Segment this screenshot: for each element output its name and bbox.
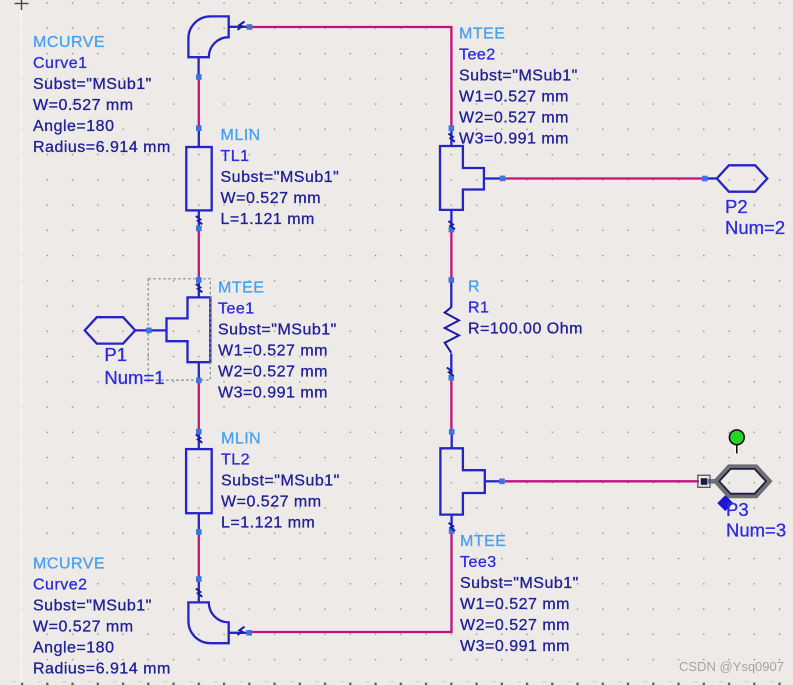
svg-text:W2=0.527 mm: W2=0.527 mm	[460, 617, 570, 634]
svg-text:MLIN: MLIN	[221, 127, 261, 144]
svg-text:Num=1: Num=1	[104, 367, 164, 388]
svg-text:R: R	[468, 279, 480, 296]
svg-text:Angle=180: Angle=180	[33, 640, 114, 657]
svg-text:W3=0.991 mm: W3=0.991 mm	[460, 638, 570, 655]
svg-text:TL1: TL1	[221, 148, 250, 165]
svg-text:MTEE: MTEE	[459, 26, 505, 43]
svg-text:L=1.121 mm: L=1.121 mm	[221, 211, 315, 228]
svg-text:Subst="MSub1": Subst="MSub1"	[459, 68, 578, 85]
svg-text:Subst="MSub1": Subst="MSub1"	[221, 169, 340, 186]
svg-text:Tee1: Tee1	[218, 301, 255, 318]
svg-text:Subst="MSub1": Subst="MSub1"	[221, 473, 340, 490]
svg-text:Tee3: Tee3	[460, 554, 497, 571]
svg-text:W=0.527 mm: W=0.527 mm	[33, 97, 134, 114]
svg-text:MLIN: MLIN	[221, 431, 261, 448]
svg-text:Subst="MSub1": Subst="MSub1"	[218, 322, 337, 339]
svg-text:Subst="MSub1": Subst="MSub1"	[33, 598, 152, 615]
svg-text:W3=0.991 mm: W3=0.991 mm	[218, 385, 328, 402]
svg-text:W3=0.991 mm: W3=0.991 mm	[459, 131, 569, 148]
svg-text:W2=0.527 mm: W2=0.527 mm	[459, 110, 569, 127]
svg-text:TL2: TL2	[221, 452, 250, 469]
svg-text:W=0.527 mm: W=0.527 mm	[33, 619, 134, 636]
svg-text:W1=0.527 mm: W1=0.527 mm	[460, 596, 570, 613]
svg-text:Angle=180: Angle=180	[33, 118, 114, 135]
svg-text:R1: R1	[468, 300, 489, 317]
svg-text:Radius=6.914 mm: Radius=6.914 mm	[33, 661, 171, 678]
svg-text:W=0.527 mm: W=0.527 mm	[221, 494, 322, 511]
svg-text:Subst="MSub1": Subst="MSub1"	[33, 76, 152, 93]
svg-text:P3: P3	[726, 499, 749, 520]
svg-text:MTEE: MTEE	[460, 533, 506, 550]
svg-text:CSDN @Ysq0907: CSDN @Ysq0907	[679, 659, 784, 674]
svg-text:MTEE: MTEE	[218, 280, 264, 297]
svg-text:Subst="MSub1": Subst="MSub1"	[460, 575, 579, 592]
svg-text:Curve1: Curve1	[33, 55, 88, 72]
svg-text:MCURVE: MCURVE	[33, 34, 105, 51]
svg-text:Radius=6.914 mm: Radius=6.914 mm	[33, 139, 171, 156]
svg-text:P1: P1	[104, 344, 127, 365]
svg-text:P2: P2	[725, 196, 748, 217]
svg-text:Num=2: Num=2	[725, 217, 785, 238]
svg-text:MCURVE: MCURVE	[33, 556, 105, 573]
svg-text:Tee2: Tee2	[459, 47, 496, 64]
svg-text:W1=0.527 mm: W1=0.527 mm	[459, 89, 569, 106]
svg-text:Num=3: Num=3	[726, 520, 786, 541]
svg-text:W=0.527 mm: W=0.527 mm	[221, 190, 322, 207]
svg-text:Curve2: Curve2	[33, 577, 88, 594]
svg-text:W1=0.527 mm: W1=0.527 mm	[218, 343, 328, 360]
svg-text:L=1.121 mm: L=1.121 mm	[221, 515, 315, 532]
svg-text:R=100.00 Ohm: R=100.00 Ohm	[468, 321, 583, 338]
svg-text:W2=0.527 mm: W2=0.527 mm	[218, 364, 328, 381]
